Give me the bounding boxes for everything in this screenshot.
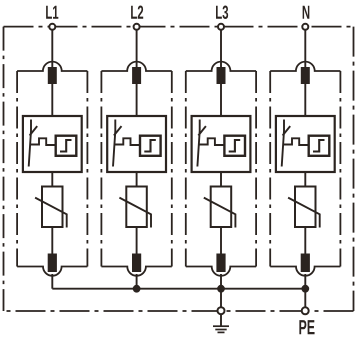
thermal disconnector (bottom, L2): [132, 254, 141, 273]
spark gap unit N (box with trigger symbol): [276, 116, 335, 172]
PE terminal circle: [302, 307, 309, 314]
label L3: [216, 6, 228, 19]
earth (ground) symbol: [213, 326, 229, 332]
wire: spark gap unit to varistor L2: [136, 172, 138, 187]
wire: disconnector to spark gap unit L1: [51, 84, 53, 116]
wire: spark gap unit to varistor N: [304, 172, 306, 187]
thermal disconnector (bottom, L1): [48, 254, 57, 273]
wire: bottom disconnector to PE bus: [51, 274, 53, 289]
wire: varistor to bottom disconnector L2: [136, 227, 138, 254]
wire: varistor to bottom disconnector N: [304, 227, 306, 254]
thermal disconnector (bottom, L3): [216, 254, 225, 273]
protection module L2: inner dash-dot boundary: [101, 62, 171, 276]
earth terminal circle: [218, 307, 225, 314]
varistor L1: [35, 187, 67, 228]
wire: terminal L1 to top disconnector: [51, 29, 53, 68]
label N: [303, 6, 310, 19]
wire: terminal L3 to top disconnector: [220, 29, 222, 68]
thermal disconnector (top, L2): [132, 67, 141, 84]
thermal disconnector (bottom, N): [301, 254, 310, 273]
wire: disconnector to spark gap unit L2: [136, 84, 138, 116]
spark gap unit L1 (box with trigger symbol): [23, 116, 82, 172]
thermal disconnector (top, L3): [217, 67, 226, 84]
wire: spark gap unit to varistor L3: [220, 172, 222, 187]
terminal N: [302, 24, 308, 30]
PE bus wire: [52, 288, 305, 290]
thermal disconnector (top, L1): [48, 67, 57, 84]
wire: disconnector to spark gap unit L3: [220, 84, 222, 116]
wire: terminal N to top disconnector: [304, 29, 306, 68]
varistor L2: [119, 187, 151, 228]
junction L3/bus: [217, 285, 225, 293]
junction N/bus: [301, 285, 309, 293]
wire: varistor to bottom disconnector L3: [220, 227, 222, 254]
wire: bottom disconnector to PE bus: [136, 274, 138, 289]
spark gap unit L3 (box with trigger symbol): [192, 116, 251, 172]
wire: bus to earth terminal: [220, 289, 222, 311]
wire: varistor to bottom disconnector L1: [51, 227, 53, 254]
wire: bottom disconnector to PE bus: [220, 274, 222, 289]
junction L2/bus: [133, 285, 141, 293]
label L1: [46, 6, 58, 19]
label L2: [131, 6, 143, 19]
protection module L3: inner dash-dot boundary: [186, 62, 256, 276]
protection module N: inner dash-dot boundary: [270, 62, 340, 276]
terminal L1: [49, 24, 55, 30]
terminal L2: [134, 24, 140, 30]
varistor L3: [204, 187, 236, 228]
wire: earth terminal to earth symbol: [220, 314, 222, 326]
varistor N: [288, 187, 320, 228]
wire: disconnector to spark gap unit N: [304, 84, 306, 116]
wire: bus to PE terminal: [304, 289, 306, 311]
spark gap unit L2 (box with trigger symbol): [107, 116, 166, 172]
terminal L3: [218, 24, 224, 30]
label PE: [299, 320, 314, 334]
wire: bottom disconnector to PE bus: [304, 274, 306, 289]
thermal disconnector (top, N): [301, 67, 310, 84]
wire: terminal L2 to top disconnector: [136, 29, 138, 68]
wire: spark gap unit to varistor L1: [51, 172, 53, 187]
protection module L1: inner dash-dot boundary: [17, 62, 87, 276]
